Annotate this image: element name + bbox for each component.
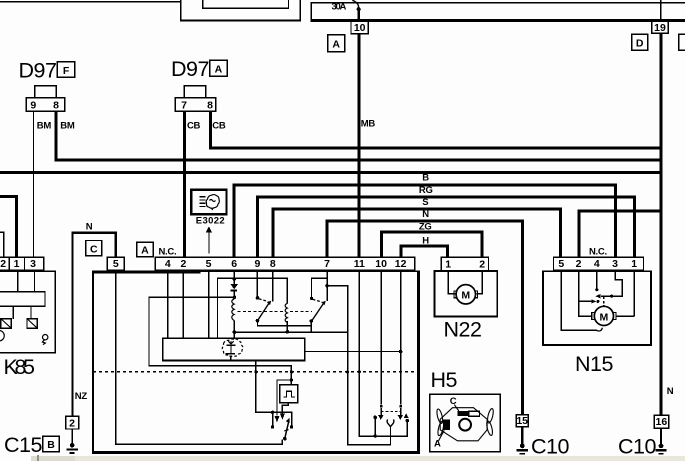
diode D xyxy=(231,284,239,296)
svg-text:15: 15 xyxy=(516,415,528,427)
svg-text:7: 7 xyxy=(181,99,187,111)
central connector row (pins 4,2,5,6,9,8,7,11,10,12) xyxy=(155,257,414,270)
N15 park hook xyxy=(597,328,603,331)
junction dot below diode xyxy=(233,296,237,300)
wire CB thick from D97A-8 xyxy=(209,111,212,148)
svg-text:2: 2 xyxy=(0,258,6,270)
N15 switch dashed link xyxy=(603,297,605,306)
N15 pin4 stub contact xyxy=(595,270,598,292)
ground (pin 15) xyxy=(517,427,528,455)
wire CB thick from D97A-7 to unit pin2 xyxy=(183,111,186,257)
rear wiper motor N15 row (pins 5,2,4,3,1) xyxy=(554,257,644,270)
wire line1 (D97F-8 to right vertical) xyxy=(55,158,662,161)
fuse box F inner box xyxy=(202,0,289,9)
svg-text:1: 1 xyxy=(14,258,20,270)
timer feed wire xyxy=(148,297,293,386)
washer pump N22 row (pins 1,2) xyxy=(441,257,488,270)
wire pin4 into unit xyxy=(167,270,168,338)
svg-text:30A: 30A xyxy=(332,1,347,12)
H5 label C with pointer xyxy=(450,396,459,411)
wire loop upper left (to motor bar / PTC) xyxy=(217,278,288,339)
motor M (N15) xyxy=(592,306,616,325)
dashed separator line xyxy=(93,371,417,373)
timer output jog xyxy=(280,403,289,420)
svg-text:5: 5 xyxy=(206,258,212,270)
node A (boxed) xyxy=(328,35,345,52)
svg-text:C15: C15 xyxy=(4,433,42,457)
connector C bracket xyxy=(71,231,117,416)
svg-text:N: N xyxy=(667,386,674,397)
wire H (unit pin12 to N22 pin1) xyxy=(399,245,449,258)
svg-text:2: 2 xyxy=(69,417,75,429)
H5 pump bar filled xyxy=(457,411,469,416)
H5 octagon xyxy=(440,408,487,441)
N15 switch arm with arrow xyxy=(595,294,613,298)
wire RG (unit pin9 to N15 pin1) xyxy=(256,196,636,258)
H5 filled block xyxy=(443,420,450,431)
svg-text:E3022: E3022 xyxy=(196,216,225,227)
svg-text:6: 6 xyxy=(231,258,237,270)
svg-text:H: H xyxy=(422,235,429,246)
ignition switch K85 box xyxy=(0,271,55,353)
svg-text:C: C xyxy=(90,244,98,256)
node A boxed (above unit pin 4) xyxy=(137,242,153,257)
N15 pin2 branch with arrow xyxy=(578,299,600,303)
svg-text:N22: N22 xyxy=(444,318,482,342)
wire pin2 into unit xyxy=(183,270,184,338)
svg-text:M: M xyxy=(461,290,470,302)
svg-text:BM: BM xyxy=(37,121,52,132)
svg-text:D97: D97 xyxy=(19,58,57,82)
wire sw1-sw2 bottom link xyxy=(257,325,312,326)
svg-text:1: 1 xyxy=(445,258,451,270)
wire pin10 into unit + park arrow xyxy=(378,270,384,420)
svg-text:3: 3 xyxy=(612,258,618,270)
svg-text:N15: N15 xyxy=(575,352,613,376)
wire pin6 to diode xyxy=(234,270,236,284)
motor M (N22) xyxy=(454,285,478,304)
svg-text:ZG: ZG xyxy=(419,221,432,232)
switch SW1 bottom contact xyxy=(256,319,260,326)
E3022 arrow xyxy=(206,227,212,254)
svg-text:N.C.: N.C. xyxy=(159,247,177,258)
park switch up arrow xyxy=(404,413,409,418)
wire to K85 pin1 (thick corner from left edge) xyxy=(0,195,18,257)
connector D97 F label xyxy=(19,58,75,82)
switch SW1 arm with arrow xyxy=(258,301,272,321)
connector D97A bracket xyxy=(184,85,207,98)
K85 contact square 1 xyxy=(1,306,14,328)
separator junction dots xyxy=(254,370,361,373)
svg-text:C10: C10 xyxy=(531,435,569,459)
coil dashed actuation line xyxy=(238,311,284,313)
rear wiper motor N15 box xyxy=(543,271,651,345)
svg-text:10: 10 xyxy=(354,22,366,34)
switch SW1 pivot dot (pin9) xyxy=(256,270,260,300)
wire MB (pin10 to N.11) xyxy=(358,34,361,258)
pin 15 xyxy=(516,415,528,427)
svg-text:9: 9 xyxy=(254,258,260,270)
svg-text:16: 16 xyxy=(656,416,668,428)
wire pin8 into unit xyxy=(272,270,274,302)
svg-text:9: 9 xyxy=(30,99,36,111)
wire N15 pin2 feed (to right vertical) xyxy=(577,210,662,258)
svg-text:10: 10 xyxy=(375,258,387,270)
N22 pin1 internal wire xyxy=(448,271,456,295)
Y contact stem xyxy=(390,426,391,445)
svg-text:A: A xyxy=(332,39,340,51)
svg-text:MB: MB xyxy=(361,118,376,129)
wire pin5 into unit xyxy=(208,270,209,338)
svg-text:7: 7 xyxy=(324,258,330,270)
switch SW2 bottom contact xyxy=(309,319,313,332)
svg-text:F: F xyxy=(63,65,70,77)
fuse box F (top left outer box) xyxy=(180,0,301,22)
wire loop upper right (pin7 to SW2 pivot) xyxy=(311,278,328,279)
wire to K85 pin2 (thin corner from left edge) xyxy=(0,232,5,258)
connector D97F pin box (pins 9,8) xyxy=(26,98,64,112)
svg-text:N.C.: N.C. xyxy=(589,247,607,258)
washer pump N22 box xyxy=(435,271,498,316)
mode switch arm xyxy=(284,418,289,438)
node D (boxed) xyxy=(632,34,648,50)
svg-text:S: S xyxy=(422,197,428,208)
svg-text:3: 3 xyxy=(30,258,36,270)
N15 pin3 internal path xyxy=(613,270,623,297)
wire pin7 branch right and down xyxy=(327,285,391,446)
svg-text:N: N xyxy=(86,222,93,233)
svg-text:B: B xyxy=(422,173,429,184)
wire N main right vertical (pin19 down to pin16) xyxy=(660,0,663,416)
connector C15 label xyxy=(4,433,59,457)
svg-text:A: A xyxy=(141,244,149,256)
wiper motor bar xyxy=(163,338,305,360)
wire BM thin from D97F-9 to K85-3 xyxy=(33,111,34,257)
N15 pin2 internal wire xyxy=(578,270,593,317)
park switch pin11 path xyxy=(359,270,410,437)
pin 10 xyxy=(351,21,368,34)
wire from C pin5 inside unit xyxy=(115,270,283,445)
wire N (unit pin7 to pin15 ground) xyxy=(326,220,524,416)
PTC squiggle vertical xyxy=(285,278,289,334)
svg-text:C10: C10 xyxy=(618,435,656,459)
svg-text:8: 8 xyxy=(53,99,59,111)
K85 contact square 2 xyxy=(27,306,37,328)
svg-text:11: 11 xyxy=(354,258,365,270)
svg-text:12: 12 xyxy=(395,258,407,270)
E3022 lamp blob xyxy=(206,195,219,210)
wire line0 (D97A-8 to right vertical) xyxy=(209,147,662,150)
svg-text:D: D xyxy=(636,38,644,50)
node C (boxed) xyxy=(86,241,102,256)
mode switch hanging contacts xyxy=(271,411,293,429)
svg-text:1: 1 xyxy=(631,258,637,270)
N15 pin5 internal wire xyxy=(561,270,597,331)
junction dot pin6/loop xyxy=(233,277,237,281)
svg-text:2: 2 xyxy=(479,258,485,270)
fuse 30A symbol xyxy=(352,0,361,19)
H5 ring xyxy=(459,419,471,431)
pin 2 (C15) xyxy=(66,416,79,429)
pin 16 xyxy=(654,415,668,428)
H5 pump bar outline xyxy=(469,411,480,416)
svg-text:RG: RG xyxy=(419,185,433,196)
svg-text:CB: CB xyxy=(212,121,226,132)
N15 pin1 internal wire xyxy=(616,270,635,317)
svg-text:5: 5 xyxy=(113,258,119,270)
wire left from diode junction xyxy=(148,297,234,298)
pin 5 (connector C) xyxy=(107,257,124,270)
svg-text:M: M xyxy=(600,311,609,323)
svg-text:19: 19 xyxy=(654,22,666,34)
wire line2 (left edge to right vertical) xyxy=(0,171,662,174)
top-left band edge line xyxy=(0,1,180,3)
wire BM thick from D97F-8 xyxy=(55,111,58,160)
wire S (unit pin8 to N15 pin5) xyxy=(272,208,563,258)
top band right box (junction unit B) xyxy=(311,2,685,22)
connector D97F bracket xyxy=(34,85,57,98)
svg-text:C: C xyxy=(450,396,457,407)
pin 19 xyxy=(652,21,668,34)
H5 left wings xyxy=(436,408,445,436)
K85 left arc xyxy=(0,331,4,341)
switch SW2 dashed rest contact xyxy=(313,299,323,302)
K85 key symbol xyxy=(42,335,48,345)
bottom scrollbar strip xyxy=(31,455,685,461)
svg-text:K85: K85 xyxy=(4,355,36,379)
N22 pin2 internal wire xyxy=(476,271,483,295)
connector D97 A label xyxy=(171,57,227,81)
park switch left contact xyxy=(373,416,377,438)
connector D97A pin box (pins 7,8) xyxy=(175,98,215,112)
svg-text:2: 2 xyxy=(180,258,186,270)
lamp icon E3022 box xyxy=(191,190,226,215)
ground (C15) xyxy=(66,429,77,454)
junction dot pin12/bar xyxy=(399,350,403,354)
H5 label A with pointer xyxy=(434,430,444,449)
svg-text:8: 8 xyxy=(207,99,213,111)
K85 inner block xyxy=(0,292,45,307)
svg-text:N: N xyxy=(422,209,429,220)
wire coil bottom junction xyxy=(233,320,237,338)
mode switch arm base dot and link xyxy=(282,437,287,444)
washer reservoir H5 box xyxy=(430,394,501,452)
wiper control unit box (central) xyxy=(92,271,420,455)
Y contact xyxy=(387,419,394,426)
svg-text:H5: H5 xyxy=(431,368,458,392)
wire ZG (unit pin10 to N22 pin2) xyxy=(380,231,484,258)
timer box xyxy=(280,385,298,403)
E3022 lamp bars xyxy=(199,196,205,207)
svg-text:D97: D97 xyxy=(171,57,209,81)
svg-text:NZ: NZ xyxy=(75,391,88,402)
svg-text:2: 2 xyxy=(576,258,582,270)
wire motor bar to pin12 xyxy=(305,351,401,352)
switch SW2 pivot xyxy=(310,278,313,300)
timer branch left arm xyxy=(275,379,280,422)
svg-text:A: A xyxy=(215,63,223,75)
svg-text:B: B xyxy=(47,439,55,451)
svg-text:4: 4 xyxy=(594,258,600,270)
svg-text:8: 8 xyxy=(270,258,276,270)
node E (boxed, clipped at edge) xyxy=(679,34,685,50)
svg-text:A: A xyxy=(434,439,441,450)
wire from bar bottom down (feedback) xyxy=(255,360,292,413)
svg-text:CB: CB xyxy=(187,121,201,132)
relay coil squiggle xyxy=(232,299,234,321)
wiper spray icon xyxy=(222,339,243,357)
park switch dashed link xyxy=(381,410,401,412)
wire pin7 into unit xyxy=(325,270,329,301)
svg-text:5: 5 xyxy=(558,258,564,270)
connector row K85 (pins 2,1,3) xyxy=(0,257,44,270)
wire right from coil junction xyxy=(234,332,349,334)
svg-text:4: 4 xyxy=(165,258,171,270)
switch SW1 dashed rest contact xyxy=(259,299,269,302)
ground (pin 16) xyxy=(655,428,666,454)
H5 right wings xyxy=(486,408,495,436)
wire B (unit pin6 to N15 pin3) xyxy=(232,184,617,258)
svg-text:BM: BM xyxy=(60,121,75,132)
switch SW2 arm with arrow xyxy=(311,301,326,322)
K85 row-to-block stubs xyxy=(17,270,35,292)
wire pin12 into unit + park arrow xyxy=(398,270,404,420)
